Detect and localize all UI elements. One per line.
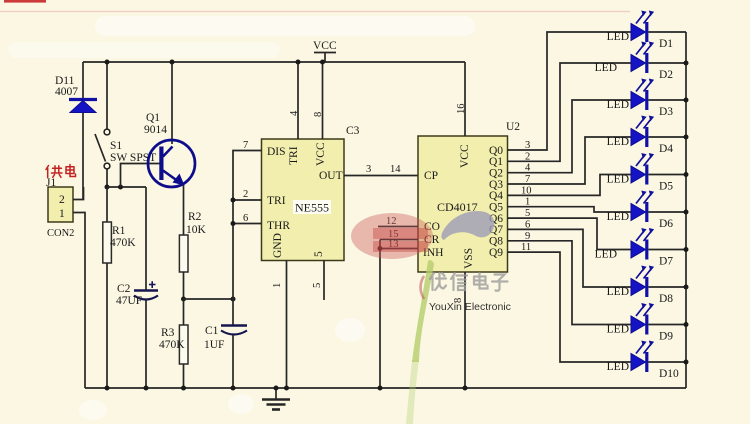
wire Q6 to LED D7 xyxy=(508,218,632,249)
svg-text:R3: R3 xyxy=(161,327,175,339)
wire Q3 to LED D4 xyxy=(508,137,632,184)
resistor R1 470K xyxy=(103,187,136,388)
LED D7 xyxy=(595,228,686,268)
svg-text:Q5: Q5 xyxy=(489,202,503,214)
wire Q4 to LED D5 xyxy=(508,175,632,196)
svg-text:R2: R2 xyxy=(188,211,202,223)
watermark red highlight blob xyxy=(351,213,433,259)
svg-text:D1: D1 xyxy=(659,38,673,50)
IC U2 CD4017 counter xyxy=(418,136,508,272)
svg-text:LED: LED xyxy=(607,286,629,298)
svg-text:VCC: VCC xyxy=(313,40,337,52)
svg-text:47UF: 47UF xyxy=(116,295,142,307)
svg-text:GND: GND xyxy=(272,233,284,258)
watermark logo crescent xyxy=(441,211,494,240)
svg-text:U2: U2 xyxy=(506,121,520,133)
svg-text:10: 10 xyxy=(521,185,532,196)
VCC top rail wire xyxy=(83,61,465,63)
svg-text:3: 3 xyxy=(366,164,371,175)
svg-text:7: 7 xyxy=(243,140,248,151)
wire CR/INH to ground rail xyxy=(379,240,381,389)
svg-text:VCC: VCC xyxy=(315,142,327,166)
svg-text:Q9: Q9 xyxy=(489,247,503,259)
capacitor C1 1UF xyxy=(204,299,247,388)
svg-text:3: 3 xyxy=(525,140,530,151)
resistor R2 10K xyxy=(179,211,206,299)
svg-text:D6: D6 xyxy=(659,218,673,230)
svg-text:LED: LED xyxy=(595,62,617,74)
wire OUT pin3 to CP pin14 xyxy=(344,175,418,177)
svg-text:470K: 470K xyxy=(110,237,136,249)
svg-text:LED: LED xyxy=(595,249,617,261)
svg-text:DIS: DIS xyxy=(267,146,286,158)
scan artifact white band xyxy=(95,16,475,36)
wire pin1 GND drop xyxy=(286,261,288,389)
LED D9 xyxy=(607,303,686,343)
svg-text:Q1: Q1 xyxy=(146,112,160,124)
IC U1 NE555 timer xyxy=(262,139,345,261)
svg-text:CON2: CON2 xyxy=(47,228,74,239)
capacitor C2 47UF xyxy=(116,187,158,388)
wire junction row to C2 xyxy=(107,186,146,188)
diode D11 4007 xyxy=(55,62,97,200)
svg-text:4007: 4007 xyxy=(55,86,78,98)
svg-text:VSS: VSS xyxy=(463,248,475,269)
svg-text:C2: C2 xyxy=(117,283,131,295)
svg-text:6: 6 xyxy=(525,219,530,230)
wire base link xyxy=(121,164,160,188)
svg-text:2: 2 xyxy=(243,189,248,200)
LED D10 xyxy=(607,341,686,381)
node dots top rail xyxy=(105,60,110,65)
ground bottom rail wire xyxy=(85,387,686,389)
svg-text:Q4: Q4 xyxy=(489,190,503,202)
wire Q1 to LED D2 xyxy=(508,63,632,161)
svg-text:5: 5 xyxy=(312,283,323,288)
wire J1 pin1 to ground rail xyxy=(73,213,85,389)
ground symbol xyxy=(262,388,290,410)
svg-text:1: 1 xyxy=(272,283,283,288)
svg-text:R1: R1 xyxy=(112,225,126,237)
svg-text:6: 6 xyxy=(243,213,248,224)
wire pin8 VSS drop xyxy=(464,272,466,388)
LED D2 xyxy=(595,42,686,82)
svg-text:LED: LED xyxy=(607,136,629,148)
wire pin5 stub (open) xyxy=(323,261,325,301)
connector J1 CON2 xyxy=(46,177,74,239)
svg-text:D3: D3 xyxy=(659,106,673,118)
wire pin6 stub xyxy=(233,223,262,225)
LED D5 xyxy=(607,153,686,193)
svg-text:16: 16 xyxy=(456,104,467,115)
wire Q2 to LED D3 xyxy=(508,100,632,173)
svg-text:LED: LED xyxy=(607,324,629,336)
wire Q8 to LED D9 xyxy=(508,241,632,325)
VCC power symbol xyxy=(313,40,337,62)
LED cathode bus wire xyxy=(685,32,687,388)
LED D4 xyxy=(607,116,686,156)
svg-text:CP: CP xyxy=(424,170,438,182)
node junction C1 xyxy=(231,297,236,302)
wire INH pin13 stub xyxy=(380,248,418,250)
wire CO pin12 stub xyxy=(378,226,418,228)
svg-text:4: 4 xyxy=(525,163,531,174)
svg-text:D10: D10 xyxy=(659,368,679,380)
wire CR pin15 stub xyxy=(380,239,418,241)
svg-text:S1: S1 xyxy=(110,140,122,152)
svg-text:11: 11 xyxy=(521,242,531,253)
svg-text:4: 4 xyxy=(289,110,300,116)
wire Q5 to LED D6 xyxy=(508,207,632,212)
node junction R2/R3 xyxy=(181,297,186,302)
svg-text:5: 5 xyxy=(313,251,325,257)
svg-text:LED: LED xyxy=(607,31,629,43)
svg-text:9014: 9014 xyxy=(144,124,167,136)
svg-text:D2: D2 xyxy=(659,69,673,81)
svg-text:2: 2 xyxy=(525,151,530,162)
svg-text:1UF: 1UF xyxy=(204,339,224,351)
wire pin8 VCC drop xyxy=(322,62,324,139)
svg-text:THR: THR xyxy=(267,220,290,232)
svg-text:YouXin Electronic: YouXin Electronic xyxy=(429,301,511,313)
svg-text:1: 1 xyxy=(59,208,65,220)
svg-text:C1: C1 xyxy=(205,325,219,337)
svg-text:OUT: OUT xyxy=(319,170,343,182)
node junction S1/R1 xyxy=(105,185,110,190)
svg-text:2: 2 xyxy=(59,194,65,206)
wire Q0 to LED D1 xyxy=(508,32,632,150)
wire J1 pin2 to D11 xyxy=(73,187,84,200)
svg-text:D7: D7 xyxy=(659,256,673,268)
LED D6 xyxy=(607,191,686,231)
wire junction row to C1/555 xyxy=(184,298,234,300)
watermark green blade xyxy=(412,260,434,362)
resistor R3 470K xyxy=(159,299,188,388)
LED D8 xyxy=(607,266,686,306)
node junction base link xyxy=(118,185,123,190)
svg-text:NE555: NE555 xyxy=(295,201,329,215)
svg-text:LED: LED xyxy=(607,361,629,373)
svg-text:1: 1 xyxy=(525,197,530,208)
svg-text:Q8: Q8 xyxy=(489,236,503,248)
wire Q9 to LED D10 xyxy=(508,252,632,362)
svg-text:10K: 10K xyxy=(186,224,207,236)
label 供电 (red) xyxy=(46,165,76,178)
wire pin4 VCC drop xyxy=(297,62,299,139)
svg-text:D9: D9 xyxy=(659,331,673,343)
wire pin2 stub xyxy=(233,199,262,201)
svg-text:TRI: TRI xyxy=(267,195,286,207)
svg-text:Q1: Q1 xyxy=(489,156,503,168)
node dots bottom rail xyxy=(105,386,110,391)
wire pin16 VCC drop xyxy=(464,62,466,136)
scan artifact red corner mark xyxy=(4,0,46,3)
transistor Q1 9014 xyxy=(144,62,195,187)
svg-text:Q2: Q2 xyxy=(489,168,503,180)
svg-text:7: 7 xyxy=(525,174,530,185)
svg-text:TRI: TRI xyxy=(288,146,300,165)
svg-text:D5: D5 xyxy=(659,181,673,193)
LED D3 xyxy=(607,79,686,119)
svg-text:470K: 470K xyxy=(159,339,185,351)
svg-text:LED: LED xyxy=(607,211,629,223)
svg-text:14: 14 xyxy=(390,164,401,175)
svg-text:D8: D8 xyxy=(659,293,673,305)
switch S1 SW SPST xyxy=(95,62,156,187)
wire Q7 to LED D8 xyxy=(508,229,632,287)
wire Q1 emitter down xyxy=(183,185,185,235)
svg-text:8: 8 xyxy=(313,112,324,117)
svg-text:C3: C3 xyxy=(346,125,360,137)
svg-text:5: 5 xyxy=(525,208,530,219)
svg-text:D4: D4 xyxy=(659,143,673,155)
svg-text:Q0: Q0 xyxy=(489,145,503,157)
svg-text:VCC: VCC xyxy=(459,144,471,168)
CD4017 Q output labels xyxy=(489,145,503,259)
LED D1 xyxy=(607,11,686,51)
svg-text:Q3: Q3 xyxy=(489,179,503,191)
watermark 优信电子 xyxy=(430,273,508,291)
wire NE555 left pin ladder xyxy=(233,151,262,300)
svg-text:LED: LED xyxy=(607,174,629,186)
svg-text:LED: LED xyxy=(607,99,629,111)
svg-text:J1: J1 xyxy=(46,177,56,189)
svg-text:9: 9 xyxy=(525,231,530,242)
